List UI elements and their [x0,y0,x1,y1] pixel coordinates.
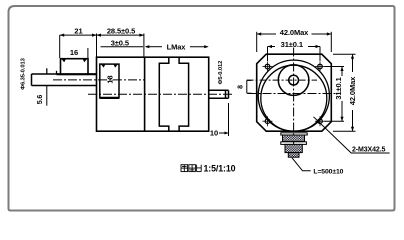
boss circle [278,65,309,96]
front view square flange [257,54,332,131]
screw hole BL [263,116,273,126]
screw hole BR [315,116,325,126]
dim 3 shelf [101,46,144,48]
gearbox boss rect 18 [100,64,119,98]
shaft circle [289,75,299,85]
dim 31 right [325,67,345,122]
connector stack [281,133,307,157]
rear shaft [209,90,229,98]
svg-text:5.6: 5.6 [37,95,44,105]
shaft flat thick line [47,68,97,74]
dim LMax [146,46,208,48]
side view body outline [97,57,209,131]
dim 10 rear shaft [219,103,229,136]
svg-text:16: 16 [70,48,78,57]
gearbox circle [261,65,327,131]
screw hole TR [315,62,325,72]
svg-text:21: 21 [74,27,82,36]
svg-text:1:5/1:10: 1:5/1:10 [204,164,236,174]
dim row1 21 / 28.5 [60,34,144,59]
dim 5.6 [46,86,48,106]
svg-text:Φ5-0.012: Φ5-0.012 [218,61,224,85]
svg-text:31±0.1: 31±0.1 [281,40,303,49]
dim 8 offset [247,80,252,93]
svg-text:L=500±10: L=500±10 [313,168,343,175]
dim 42.0Max top [257,32,332,52]
svg-text:31±0.1: 31±0.1 [334,77,343,99]
key rect 16 [61,59,89,75]
svg-text:42.0Max: 42.0Max [280,28,309,37]
output shaft [32,74,97,86]
front center lines [293,48,295,158]
svg-text:10: 10 [210,128,218,137]
leader 2-M3 [314,117,390,153]
svg-text:3±0.5: 3±0.5 [111,39,129,48]
leader L=500 [292,158,311,171]
shaft center line [53,79,144,81]
svg-text:2-M3X42.5: 2-M3X42.5 [352,147,386,154]
plate circle [258,60,329,131]
svg-text:8: 8 [238,85,245,89]
svg-text:28.5±0.5: 28.5±0.5 [107,27,135,36]
stator cross [159,57,188,131]
svg-text:42.0Max: 42.0Max [348,76,357,105]
body center line [88,93,233,95]
dim 31 top [268,47,321,62]
dim 42.0Max right [333,54,356,131]
screw hole TL [263,62,273,72]
svg-text:Φ6.35-0.013: Φ6.35-0.013 [21,57,27,89]
svg-text:LMax: LMax [167,42,187,51]
scale note [181,164,236,174]
